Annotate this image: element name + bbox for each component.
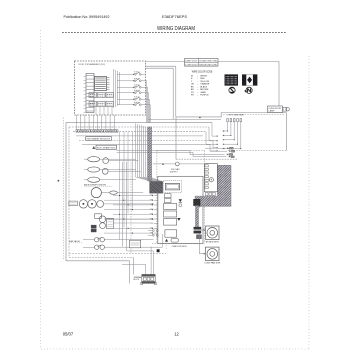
svg-text:LOW VOLTAGE LAMB: LOW VOLTAGE LAMB — [228, 113, 245, 116]
svg-text:LINE VOLT: LINE VOLT — [185, 61, 198, 63]
svg-text:SUPPLY: SUPPLY — [170, 171, 179, 173]
svg-text:GRAY: GRAY — [200, 91, 206, 94]
svg-text:W: W — [191, 75, 193, 77]
svg-text:BAKE BURNER IGNITER: BAKE BURNER IGNITER — [84, 183, 107, 186]
svg-text:RED: RED — [200, 78, 205, 80]
svg-text:Publication No: 5995491492: Publication No: 5995491492 — [64, 14, 111, 19]
svg-text:OVEN DOOR: OVEN DOOR — [269, 108, 282, 110]
svg-text:PR: PR — [191, 95, 194, 97]
svg-text:DOUBLE LINE CONN.: DOUBLE LINE CONN. — [199, 61, 217, 63]
svg-text:LAMP: LAMP — [269, 110, 276, 113]
svg-text:BLACK: BLACK — [200, 85, 207, 88]
svg-text:WIRING DIAGRAM: WIRING DIAGRAM — [157, 26, 195, 32]
svg-text:HSI SPARK MODULE: HSI SPARK MODULE — [87, 138, 111, 141]
svg-text:COOK TOP ASSEMBLY (RC): COOK TOP ASSEMBLY (RC) — [78, 63, 105, 66]
svg-text:WHITE: WHITE — [200, 75, 207, 77]
svg-text:OR: OR — [191, 84, 195, 86]
svg-text:CONV FAN MTR: CONV FAN MTR — [204, 262, 221, 265]
svg-text:05/07: 05/07 — [63, 332, 74, 337]
svg-text:LOW VOLT: LOW VOLT — [185, 64, 198, 66]
svg-text:BROWN: BROWN — [200, 89, 208, 91]
svg-text:SINGLE LINE CONN.: SINGLE LINE CONN. — [199, 64, 217, 66]
svg-text:ORANGE: ORANGE — [200, 83, 210, 86]
svg-text:WIRE COLOR CODE: WIRE COLOR CODE — [192, 71, 213, 73]
svg-text:OVEN DOOR LATCH: OVEN DOOR LATCH — [172, 245, 187, 248]
svg-text:240 VAC: 240 VAC — [171, 168, 180, 171]
svg-text:GAS VALVE: GAS VALVE — [69, 240, 81, 243]
svg-text:BLOCK: BLOCK — [134, 279, 140, 281]
svg-text:BR: BR — [191, 89, 194, 91]
svg-text:PURPLE: PURPLE — [200, 95, 209, 97]
svg-text:BK BLW MTR: BK BLW MTR — [206, 241, 220, 243]
svg-text:12: 12 — [174, 332, 179, 337]
svg-text:E36DF76EPS: E36DF76EPS — [162, 14, 187, 19]
svg-text:ELEC SPARK MOD: ELEC SPARK MOD — [97, 146, 116, 149]
svg-text:YELLOW: YELLOW — [200, 81, 209, 83]
